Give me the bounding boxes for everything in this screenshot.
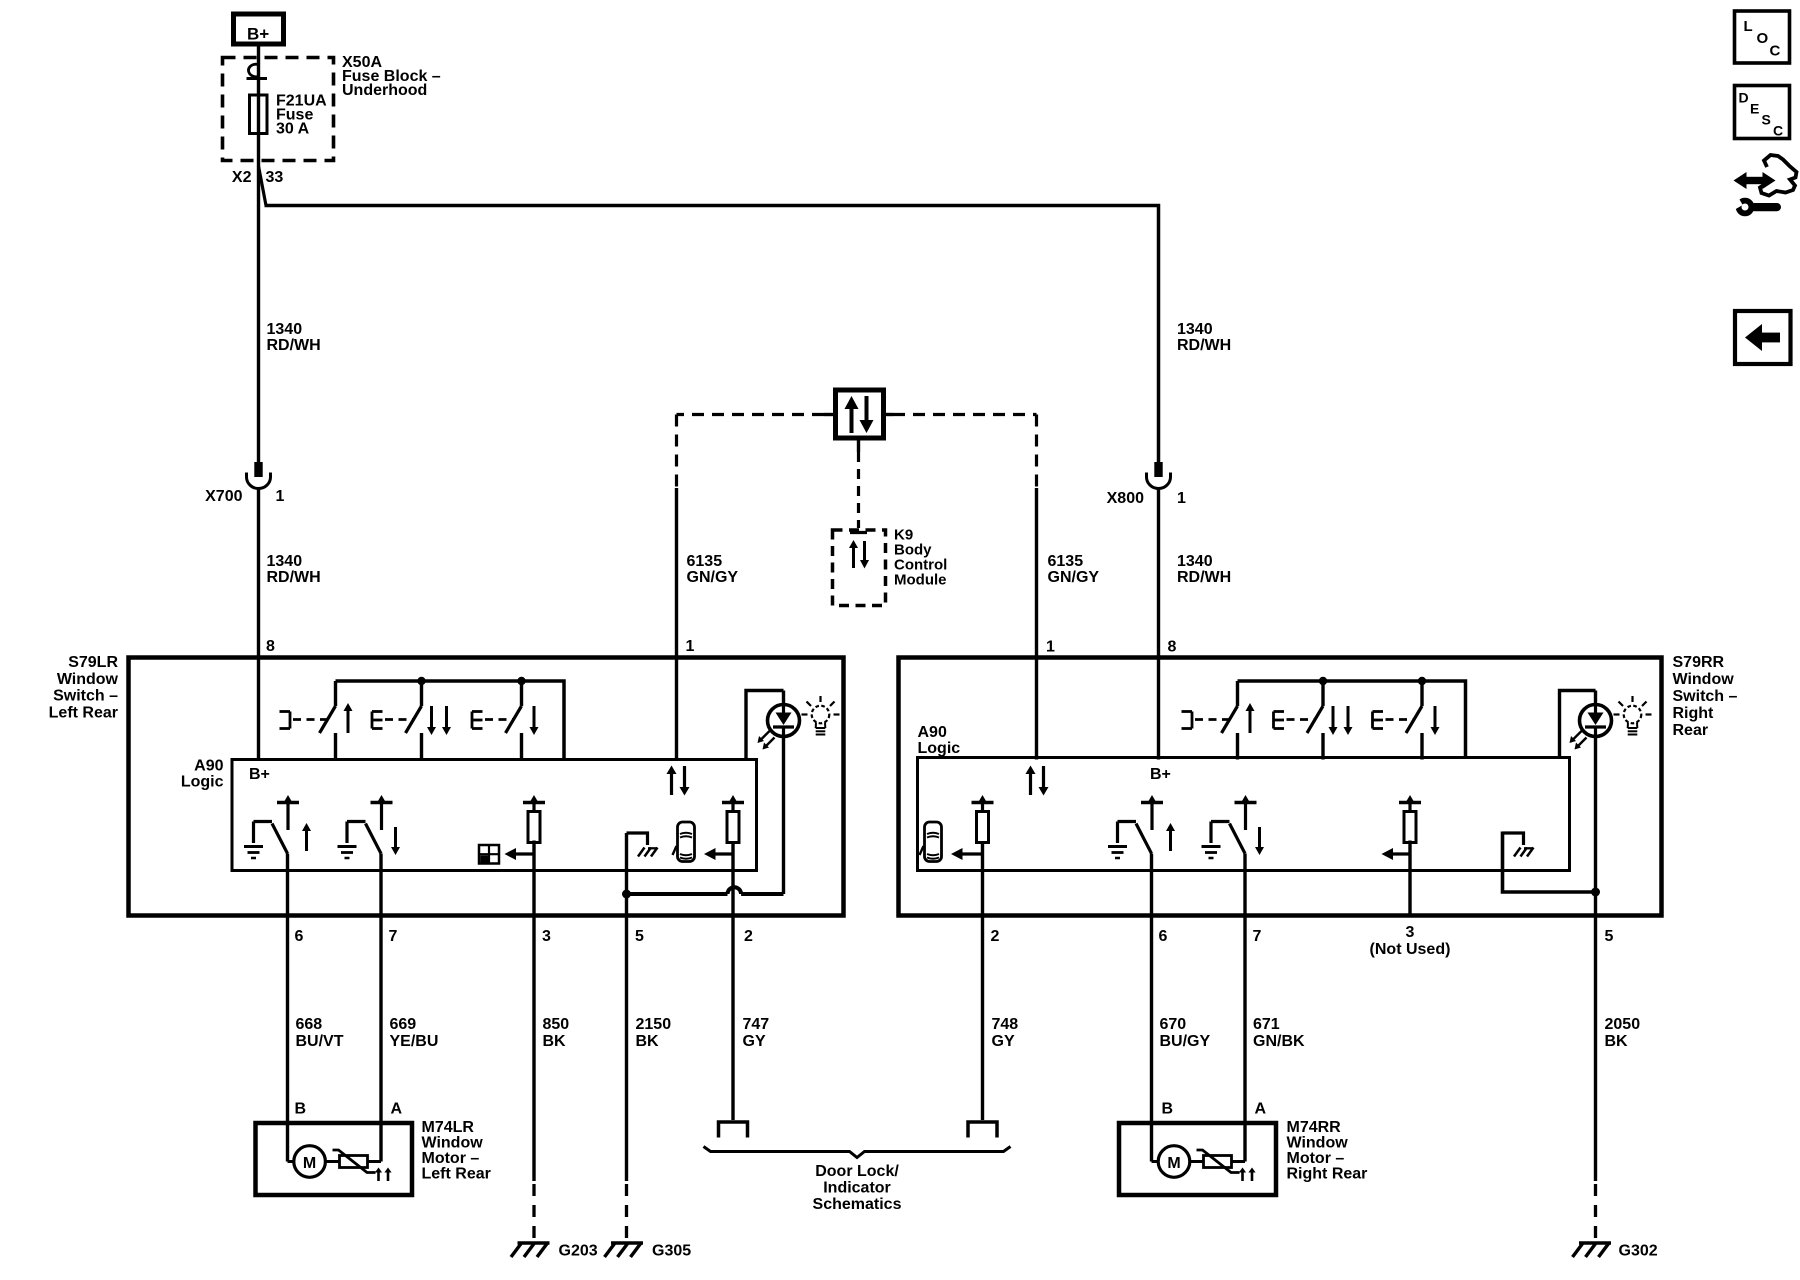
svg-text:O: O xyxy=(1757,30,1769,47)
svg-text:GN/GY: GN/GY xyxy=(1048,569,1100,586)
A90 logic inner box (right) xyxy=(918,758,1570,871)
lamp icon (right) xyxy=(1624,706,1642,724)
ground G203 xyxy=(518,1241,550,1245)
svg-text:BU/VT: BU/VT xyxy=(296,1033,344,1050)
svg-text:C: C xyxy=(1770,43,1781,60)
svg-text:GY: GY xyxy=(743,1033,766,1050)
ground hook (pin 5 left) xyxy=(627,833,648,845)
up switch contact (right, top row) xyxy=(1236,681,1239,706)
arrow to car icon (right) xyxy=(951,848,963,860)
LED indicator (right) xyxy=(1580,705,1612,737)
ground G305 xyxy=(611,1241,643,1245)
sense resistor (pin 3 right, not used) xyxy=(1399,801,1421,805)
wire left 6135 GN/GY xyxy=(675,488,678,760)
down switch contact (right, top row) xyxy=(1420,681,1423,706)
svg-text:668: 668 xyxy=(296,1016,323,1033)
down switch contact (left, top row) xyxy=(520,681,523,706)
svg-text:A: A xyxy=(1255,1101,1267,1118)
svg-text:E: E xyxy=(1750,101,1759,117)
up driver switch with ground (pin 6 left) xyxy=(277,801,299,805)
svg-text:3: 3 xyxy=(1406,924,1415,941)
tie line pin5 to LED with hop over pin2 (left) xyxy=(627,892,728,896)
svg-text:BK: BK xyxy=(543,1033,567,1050)
wire pin 2 right to door lock schematics xyxy=(981,843,984,1120)
svg-text:1340: 1340 xyxy=(1177,321,1213,338)
svg-text:Motor –: Motor – xyxy=(1287,1150,1345,1167)
dashed drop to ground G305 xyxy=(625,1184,628,1240)
svg-text:30 A: 30 A xyxy=(276,121,310,138)
svg-text:RD/WH: RD/WH xyxy=(267,569,321,586)
BCM window command box with up/down arrows xyxy=(836,390,884,438)
thermistor (right motor) xyxy=(1204,1156,1232,1168)
ground G302 xyxy=(1579,1241,1611,1245)
dashed stub BCM down to K9 xyxy=(857,452,860,528)
DESC nav box xyxy=(1735,86,1790,139)
window switch S79LR outer box xyxy=(129,658,844,916)
svg-text:S79RR: S79RR xyxy=(1673,654,1725,671)
dashed drop to ground G203 xyxy=(532,1184,535,1240)
ground hook (pin 5 right) xyxy=(1503,833,1524,845)
svg-text:RD/WH: RD/WH xyxy=(1177,337,1231,354)
svg-text:Schematics: Schematics xyxy=(813,1196,902,1213)
fuse clip curl xyxy=(249,64,259,77)
tie line hook to LED (right) xyxy=(1591,888,1600,897)
svg-text:6135: 6135 xyxy=(687,553,723,570)
svg-text:A90: A90 xyxy=(918,724,947,741)
svg-text:5: 5 xyxy=(635,928,644,945)
svg-text:2050: 2050 xyxy=(1605,1016,1641,1033)
wire pin 6 right to motor B xyxy=(1150,854,1153,1162)
sense resistor (pin 3 left) xyxy=(523,801,545,805)
svg-text:Logic: Logic xyxy=(181,774,224,791)
svg-text:2: 2 xyxy=(991,928,1000,945)
lock resistor (pin 2 left) xyxy=(722,801,744,805)
svg-text:A: A xyxy=(391,1101,403,1118)
wire pin 7 left to motor A xyxy=(379,854,382,1162)
svg-text:1: 1 xyxy=(276,488,285,505)
LOC nav box xyxy=(1735,11,1790,63)
window motor M74LR box xyxy=(256,1123,413,1195)
window motor M74RR box xyxy=(1119,1123,1276,1195)
off-page fork terminal (right pin 2) xyxy=(968,1122,997,1138)
svg-text:3: 3 xyxy=(542,928,551,945)
wire pin 5 left to G305 xyxy=(625,833,628,1181)
svg-text:6: 6 xyxy=(295,928,304,945)
wire pin 6 left to motor B xyxy=(286,854,289,1162)
svg-text:1340: 1340 xyxy=(267,321,303,338)
window switch S79RR outer box xyxy=(899,658,1662,916)
svg-text:1: 1 xyxy=(1177,490,1186,507)
svg-text:1340: 1340 xyxy=(267,553,303,570)
down driver switch with ground (pin 7 right) xyxy=(1235,801,1257,805)
svg-text:M74RR: M74RR xyxy=(1287,1119,1342,1136)
wire LED down to pin 5 right xyxy=(1594,737,1597,1182)
wire LED down to pin5 tie (left) xyxy=(782,737,785,895)
svg-text:RD/WH: RD/WH xyxy=(267,337,321,354)
arrow to car icon (left) xyxy=(704,848,716,860)
svg-text:B+: B+ xyxy=(247,25,269,44)
svg-text:BK: BK xyxy=(636,1033,660,1050)
svg-text:GN/GY: GN/GY xyxy=(687,569,739,586)
svg-text:8: 8 xyxy=(1168,639,1177,656)
svg-text:Module: Module xyxy=(894,572,947,589)
svg-text:M: M xyxy=(303,1155,316,1172)
svg-text:Switch –: Switch – xyxy=(1673,688,1738,705)
svg-text:B: B xyxy=(1162,1101,1174,1118)
car icon (left) xyxy=(678,822,695,862)
svg-text:1: 1 xyxy=(1046,639,1055,656)
svg-text:(Not Used): (Not Used) xyxy=(1370,941,1451,958)
svg-text:33: 33 xyxy=(266,169,284,186)
svg-text:2150: 2150 xyxy=(636,1016,672,1033)
fuse F21UA 30A body xyxy=(250,95,268,134)
svg-text:Left Rear: Left Rear xyxy=(49,704,118,721)
svg-text:X800: X800 xyxy=(1107,490,1144,507)
svg-text:RD/WH: RD/WH xyxy=(1177,569,1231,586)
wire B+ to fuse to X700 xyxy=(257,46,260,462)
svg-text:Logic: Logic xyxy=(918,740,961,757)
dashed wire BCM to left switch pin 1 xyxy=(677,413,825,416)
dashed wire BCM to right switch pin 1 xyxy=(893,413,1037,416)
svg-text:Left Rear: Left Rear xyxy=(422,1166,491,1183)
svg-text:Motor –: Motor – xyxy=(422,1150,480,1167)
down driver switch with ground (pin 7 left) xyxy=(371,801,393,805)
svg-text:2: 2 xyxy=(744,928,753,945)
double up arrows (right motor) xyxy=(1239,1168,1246,1173)
svg-text:7: 7 xyxy=(1253,928,1262,945)
svg-text:G302: G302 xyxy=(1619,1243,1658,1260)
toolbox icon (arrows and wrench) xyxy=(1760,155,1797,196)
svg-text:Switch –: Switch – xyxy=(53,688,118,705)
svg-text:Right: Right xyxy=(1673,705,1715,722)
A90 logic inner box (left) xyxy=(232,760,757,871)
down x2 switch contact (left, top row) xyxy=(420,681,423,706)
svg-text:G305: G305 xyxy=(652,1243,691,1260)
svg-text:S: S xyxy=(1762,112,1771,128)
svg-text:B: B xyxy=(295,1101,307,1118)
wire right 6135 GN/GY xyxy=(1035,488,1038,760)
window position icon (checkered) xyxy=(479,845,499,864)
lamp icon (left) xyxy=(812,706,830,724)
svg-text:850: 850 xyxy=(543,1016,570,1033)
wire pin 3 right (stub inside box) xyxy=(1408,841,1411,916)
svg-text:6135: 6135 xyxy=(1048,553,1084,570)
off-page fork terminal (left pin 2) xyxy=(719,1122,748,1138)
svg-text:747: 747 xyxy=(743,1016,770,1033)
up driver switch with ground (pin 6 right) xyxy=(1141,801,1163,805)
svg-text:Rear: Rear xyxy=(1673,722,1709,739)
svg-text:669: 669 xyxy=(390,1016,417,1033)
svg-text:Right Rear: Right Rear xyxy=(1287,1166,1368,1183)
svg-text:Indicator: Indicator xyxy=(823,1180,891,1197)
wire pin 2 left to door lock schematics xyxy=(731,843,734,1120)
svg-text:670: 670 xyxy=(1160,1016,1187,1033)
svg-text:Window: Window xyxy=(1673,671,1735,688)
svg-text:748: 748 xyxy=(992,1016,1019,1033)
connector X800 xyxy=(1154,462,1162,477)
K9 Body Control Module dashed box xyxy=(833,530,886,606)
connector X700 xyxy=(254,462,262,477)
wire top horizontal feed to right side xyxy=(265,206,1159,463)
svg-text:A90: A90 xyxy=(194,758,223,775)
svg-text:Door Lock/: Door Lock/ xyxy=(815,1163,899,1180)
wire X800 to switch S79RR pin 8 xyxy=(1157,489,1160,760)
window up/down arrows symbol (right logic) xyxy=(1026,766,1036,775)
wire branch diagonal from fuse output xyxy=(259,166,267,206)
svg-text:BU/GY: BU/GY xyxy=(1160,1033,1211,1050)
top contact bus (right) xyxy=(1238,681,1466,758)
arrow left (pin 3 right) xyxy=(1382,848,1394,860)
svg-text:M: M xyxy=(1167,1155,1180,1172)
thermistor (left motor) xyxy=(340,1156,368,1168)
wire pin 7 right to motor A xyxy=(1243,854,1246,1162)
dashed drop to ground G302 xyxy=(1594,1184,1597,1240)
svg-text:5: 5 xyxy=(1605,928,1614,945)
svg-text:X700: X700 xyxy=(205,488,242,505)
svg-text:B+: B+ xyxy=(249,766,270,783)
up switch contact (left, top row) xyxy=(334,681,337,706)
top contact bus (left) xyxy=(336,681,565,760)
svg-text:GN/BK: GN/BK xyxy=(1253,1033,1305,1050)
svg-text:8: 8 xyxy=(266,638,275,655)
double up arrows (left motor) xyxy=(375,1168,382,1173)
window up/down arrows symbol (left logic) xyxy=(667,766,677,775)
svg-text:M74LR: M74LR xyxy=(422,1119,475,1136)
wire X700 to switch S79LR pin 8 xyxy=(257,489,260,760)
car icon (right) xyxy=(925,822,942,862)
arrow to window icon xyxy=(505,848,517,860)
battery feed B+ terminal xyxy=(234,14,284,44)
svg-text:L: L xyxy=(1744,18,1753,35)
svg-text:Window: Window xyxy=(422,1135,484,1152)
svg-text:671: 671 xyxy=(1253,1016,1280,1033)
down x2 switch contact (right, top row) xyxy=(1321,681,1324,706)
svg-text:D: D xyxy=(1739,90,1749,106)
svg-text:GY: GY xyxy=(992,1033,1015,1050)
grouping brace door lock xyxy=(704,1147,1011,1158)
svg-text:BK: BK xyxy=(1605,1033,1629,1050)
svg-text:G203: G203 xyxy=(559,1243,598,1260)
svg-text:X2: X2 xyxy=(232,169,252,186)
svg-text:Underhood: Underhood xyxy=(342,82,427,99)
svg-text:YE/BU: YE/BU xyxy=(390,1033,439,1050)
svg-text:Window: Window xyxy=(1287,1135,1349,1152)
LED indicator (left) xyxy=(768,705,800,737)
svg-text:7: 7 xyxy=(389,928,398,945)
wire pin 3 left to G203 xyxy=(532,841,535,1182)
lock resistor (pin 2 right) xyxy=(972,801,994,805)
back arrow nav box xyxy=(1735,311,1791,364)
motor M circle (left) xyxy=(288,1160,295,1163)
fuse block X50A dashed outline xyxy=(223,58,334,161)
svg-text:1340: 1340 xyxy=(1177,553,1213,570)
svg-text:6: 6 xyxy=(1159,928,1168,945)
svg-text:C: C xyxy=(1773,123,1783,139)
svg-text:S79LR: S79LR xyxy=(68,654,118,671)
motor M circle (right) xyxy=(1152,1160,1159,1163)
svg-text:Window: Window xyxy=(57,671,119,688)
svg-text:B+: B+ xyxy=(1150,766,1171,783)
svg-text:1: 1 xyxy=(686,638,695,655)
